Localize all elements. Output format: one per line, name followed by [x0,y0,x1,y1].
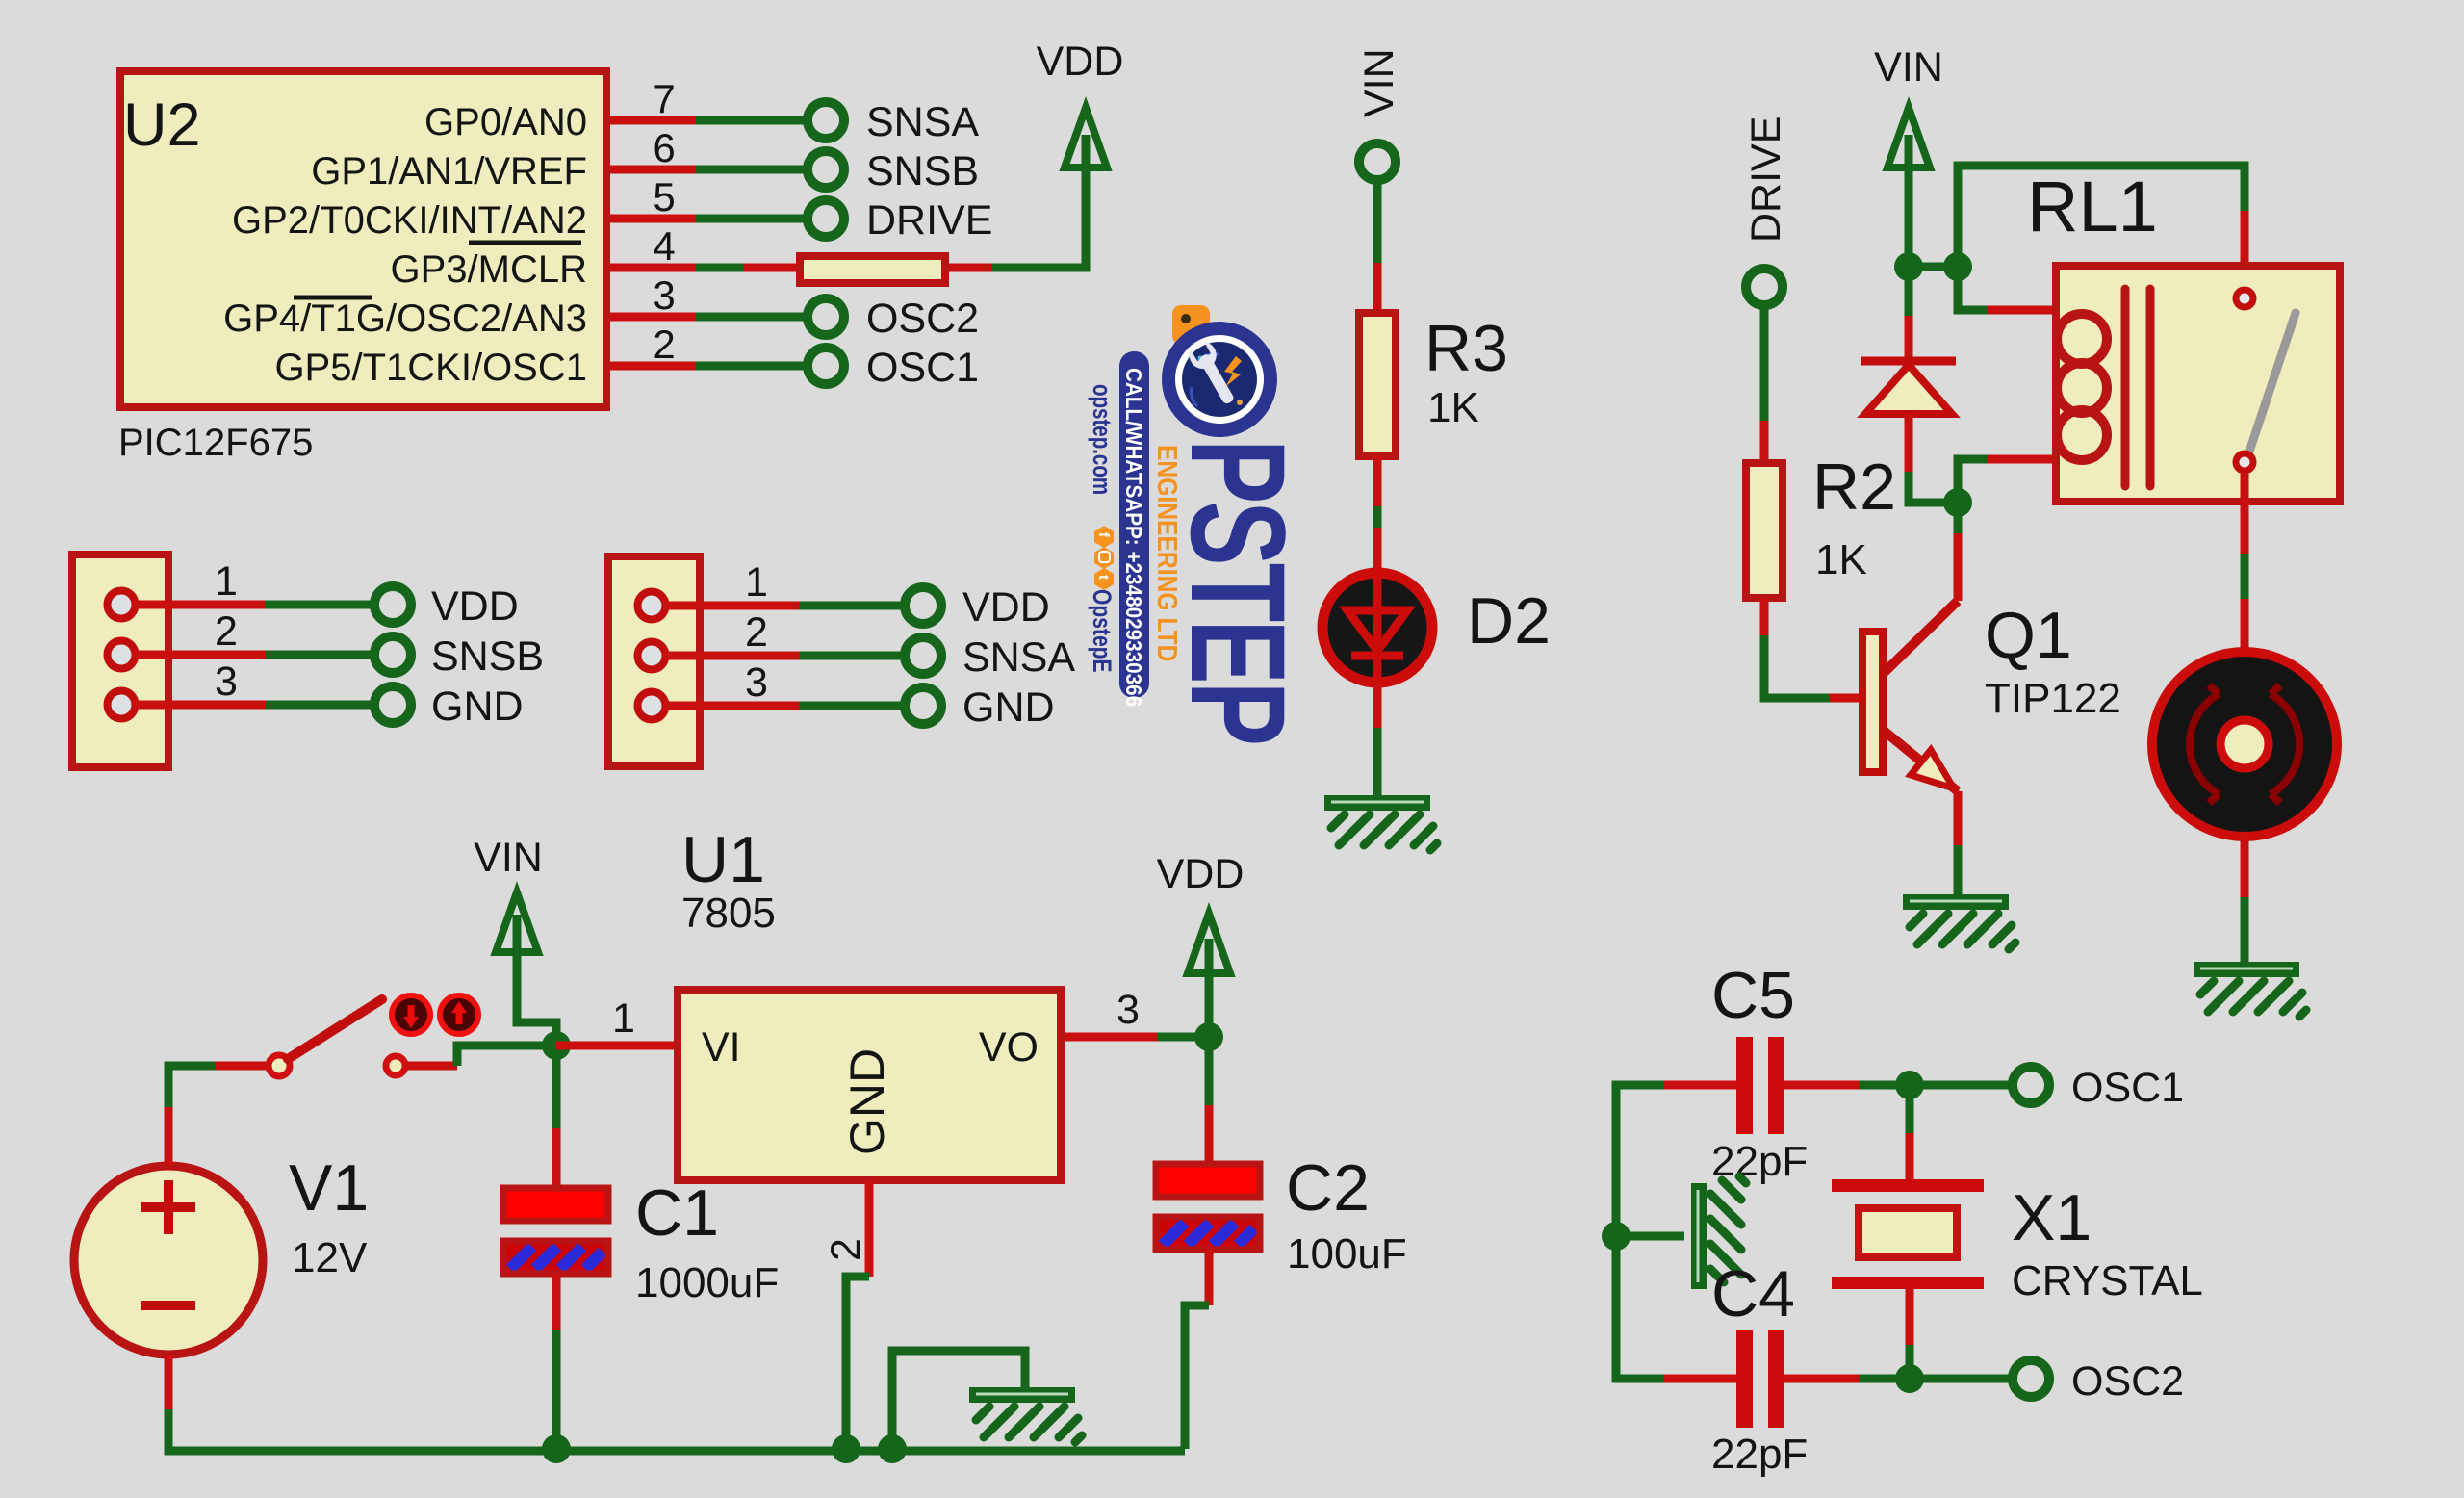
wire pin4 to R1 [744,264,796,272]
svg-text:12V: 12V [292,1234,368,1281]
wire X1 top green [1906,1098,1914,1133]
wire switch out green [457,1046,556,1066]
svg-text:2: 2 [745,609,768,656]
node OSC2 junction [1895,1364,1924,1393]
svg-text:3: 3 [653,272,675,318]
wire V1 top green [168,1066,215,1107]
wire U1 pin2 red [865,1180,874,1277]
wire pin3 to OSC2 [696,313,810,322]
terminal OSC1 [808,348,844,384]
wire relay to motor red1 [2241,474,2249,554]
relay RL1 body [2056,266,2340,502]
terminal DRIVE (right) [1746,269,1783,305]
wire X1 bottom green [1906,1345,1914,1379]
svg-text:GP5/T1CKI/OSC1: GP5/T1CKI/OSC1 [274,347,587,389]
terminal VDD (J1) [374,586,411,623]
diode D1 [1861,361,1956,414]
wire motor to gnd red [2241,837,2249,897]
terminal DRIVE [808,200,844,237]
wire C5 right red [1784,1081,1860,1090]
svg-text:22pF: 22pF [1711,1431,1808,1478]
wire U1 pin2 green jog [846,1277,869,1449]
svg-text:2: 2 [823,1238,869,1261]
wire D2 to gnd green [1373,728,1382,795]
svg-text:GP1/AN1/VREF: GP1/AN1/VREF [311,150,587,193]
svg-text:PSTEP: PSTEP [1163,439,1313,743]
relay core lines [2121,289,2130,486]
svg-text:RL1: RL1 [2027,167,2158,246]
svg-text:C5: C5 [1711,959,1795,1032]
connector J1 body [72,555,168,767]
wire J2 pin2 green [799,652,908,660]
svg-text:7805: 7805 [681,890,776,937]
resistor R3 [1359,313,1396,456]
V1 plus sign [141,1180,195,1305]
J2 pin1 circle [638,592,666,620]
svg-text:C2: C2 [1286,1151,1370,1225]
logo bolt [1224,356,1242,387]
wire VIN arrow down [1905,135,1913,267]
wire relay-motor green [2241,554,2249,599]
svg-text:3: 3 [215,659,238,705]
wire pin6 stub [610,166,696,174]
svg-text:6: 6 [653,125,675,170]
ground (D2) [1324,795,1437,850]
ground (motor) [2194,962,2306,1017]
wire pin4 stub [610,264,696,272]
terminal OSC1 (right) [2013,1067,2049,1103]
svg-text:7: 7 [653,76,675,121]
capacitor C5 [1736,1037,1784,1134]
diode D1 wire bottom green [1909,472,1958,503]
wire VIN arrow elbow [517,915,556,1046]
node VIN junction left [1894,252,1923,281]
node VO junction [1194,1022,1223,1051]
terminal SNSA [808,102,844,139]
motor body [2152,652,2337,837]
svg-text:DRIVE: DRIVE [1743,116,1789,243]
wire to switch red [215,1062,269,1071]
logo O ring [1168,328,1270,430]
svg-text:OpstepE: OpstepE [1087,589,1116,673]
wire C1 bottom green [552,1330,561,1449]
svg-text:VIN: VIN [1356,48,1402,117]
diode D1 wire top red [1905,316,1913,361]
wire X1 top red [1906,1133,1914,1182]
wire J1 pin2 red [133,651,266,659]
wire VDD arrow to junction [1205,939,1214,1037]
logo social icons [1094,526,1114,590]
svg-text:VDD: VDD [962,584,1050,631]
switch SW1 [269,999,405,1076]
svg-text:GP4/T1G/OSC2/AN3: GP4/T1G/OSC2/AN3 [223,297,587,340]
svg-text:GND: GND [431,684,524,730]
wire base red [1829,694,1859,703]
J2 pin2 circle [638,642,666,670]
svg-text:4: 4 [653,223,675,269]
wire C5 left green [1616,1085,1664,1236]
svg-text:1K: 1K [1427,384,1479,431]
svg-text:U1: U1 [681,823,765,896]
wire C5 right green [1860,1081,1910,1090]
svg-text:GND: GND [962,684,1055,731]
svg-text:U2: U2 [123,91,201,159]
svg-text:1K: 1K [1815,536,1867,583]
svg-text:PIC12F675: PIC12F675 [118,422,313,464]
wire J2 pin2 red [663,652,799,660]
wire D2 to gnd red [1373,682,1382,728]
J1 pin3 circle [108,691,136,719]
wire C2 bottom red [1205,1250,1214,1305]
resistor R2 [1746,463,1783,598]
svg-text:t: t [1095,575,1112,580]
capacitor C2 top plate [1156,1164,1260,1197]
wire coil top red [1988,306,2056,315]
wire J1 pin1 green [266,601,377,609]
wire collector green [1954,503,1963,533]
node VI junction [542,1031,571,1060]
svg-text:VDD: VDD [1157,851,1245,897]
wire emitter red [1954,791,1963,845]
svg-text:ENGINEERING LTD: ENGINEERING LTD [1152,445,1183,661]
diode D1 wire top green [1905,267,1913,316]
power arrow VDD (right) [1188,914,1230,973]
wire junction up to relay top [1958,166,2245,267]
wire J2 pin1 red [663,602,799,610]
ground (Q1) [1903,894,2015,949]
svg-text:OSC1: OSC1 [866,345,979,391]
power arrow VIN (right) [1887,108,1930,168]
wire C5 left red [1664,1081,1738,1090]
svg-text:opstep.com: opstep.com [1087,384,1116,495]
svg-text:SNSB: SNSB [431,633,544,680]
wire pin3 stub [610,313,696,322]
wire switch out red [405,1062,457,1071]
svg-text:VIN: VIN [1874,44,1943,90]
switch button up [440,995,478,1034]
svg-text:2: 2 [653,322,675,367]
terminal SNSA (J2) [905,637,941,674]
wire junction down green [552,1058,561,1128]
relay blade [2249,313,2296,452]
wire J2 pin1 green [799,602,908,610]
wire C4 left red [1664,1375,1738,1383]
svg-text:VIN: VIN [474,835,543,881]
svg-text:3: 3 [1116,987,1140,1033]
wire R2 green to base [1764,635,1829,698]
J2 pin3 circle [638,692,666,720]
wire junction down green (C2) [1205,1049,1214,1105]
wire pin5 stub [610,215,696,223]
wire R1 to corner [949,264,991,272]
svg-text:OSC2: OSC2 [2071,1358,2184,1405]
svg-text:3: 3 [745,659,768,706]
wire J2 pin3 red [663,702,799,710]
svg-text:SNSA: SNSA [866,99,979,145]
relay coil [2057,314,2107,460]
crystal X1 [1832,1179,1984,1289]
motor hub [2220,720,2269,768]
svg-text:R3: R3 [1424,312,1508,385]
terminal VIN [1359,143,1396,180]
svg-text:R2: R2 [1812,451,1896,524]
ground (crystal, rotated) [1691,1176,1746,1289]
wire J1 pin2 green [266,651,377,659]
wire V1 bottom red [165,1355,173,1409]
wire C1 bottom red [552,1274,561,1330]
wire to side ground [1616,1232,1684,1241]
wire J1 pin3 red [133,701,266,710]
wire DRIVE to R2 red [1760,421,1769,463]
node rail C1 [542,1434,571,1463]
svg-text:DRIVE: DRIVE [866,197,992,244]
logo call pill [1119,351,1149,698]
wire bottom rail [168,1409,1185,1451]
capacitor C2 bottom plate [1156,1217,1260,1250]
motor brushes [2190,685,2219,803]
svg-text:Q1: Q1 [1985,599,2072,672]
wire C4 left green [1616,1236,1664,1379]
wire U1 VO red [1065,1033,1158,1042]
wire U1 ground hook [892,1351,1025,1449]
wire U1 VO green [1158,1033,1209,1042]
diode D1 wire bottom red [1905,414,1913,472]
wire motor to gnd green [2241,897,2249,962]
wire R3-D2 green bit [1373,506,1382,528]
wire VIN to R3 red [1373,263,1382,313]
capacitor C1 bottom plate [503,1241,608,1274]
wire coil top elbow [1958,267,1988,310]
terminal VDD (J2) [905,587,941,624]
terminal SNSB [808,151,844,188]
wire DRIVE green [1760,302,1769,421]
svg-text:2: 2 [215,608,238,655]
svg-text:OSC1: OSC1 [2071,1065,2184,1111]
wire pin2 to OSC1 [696,362,810,371]
node rail U1 gnd b [878,1434,907,1463]
svg-text:1: 1 [612,995,635,1042]
svg-text:22pF: 22pF [1711,1138,1808,1185]
wire relay top pin red [2241,211,2249,289]
power arrow VIN (left) [496,892,538,952]
svg-text:TIP122: TIP122 [1985,675,2121,722]
wire to OSC2 terminal [1910,1375,2015,1383]
transistor Q1 [1862,601,1958,791]
svg-text:5: 5 [653,174,675,220]
wire J1 pin3 green [266,701,377,710]
svg-text:1: 1 [215,558,238,605]
wire pin2 stub [610,362,696,371]
svg-text:D2: D2 [1467,584,1551,658]
wire to C2 red [1205,1105,1214,1168]
wire J2 pin3 green [799,702,908,710]
node collector junction [1943,488,1972,517]
ground (U1) [969,1387,1082,1442]
capacitor C4 [1736,1330,1784,1428]
resistor R1 (MCLR pullup) [800,256,945,283]
wire to OSC1 terminal [1910,1081,2015,1090]
svg-text:GND: GND [840,1048,894,1155]
svg-text:OSC2: OSC2 [866,296,979,342]
wire C4 right green [1860,1375,1910,1383]
wire pin4 green [696,264,744,272]
wire coil bottom elbow [1958,459,1988,503]
logo wrench [1186,339,1242,409]
terminal SNSB (J1) [374,636,411,673]
wire pin7 to SNSA [696,116,810,125]
relay pin bottom [2236,453,2253,471]
svg-text:GP3/MCLR: GP3/MCLR [391,248,588,291]
svg-text:1000uF: 1000uF [635,1259,779,1306]
svg-text:100uF: 100uF [1287,1230,1407,1278]
node rail U1 gnd a [832,1434,860,1463]
svg-text:C1: C1 [635,1176,719,1250]
node OSC1 junction [1895,1071,1924,1099]
terminal OSC2 [808,298,844,335]
LED D2 body [1322,573,1432,683]
wire coil bottom red [1988,455,2056,464]
terminal OSC2 (right) [2013,1360,2049,1397]
svg-text:GP0/AN0: GP0/AN0 [424,101,587,143]
wire V1 top red [165,1107,173,1166]
LED D2 symbol [1347,574,1407,682]
terminal GND (J2) [905,687,941,724]
svg-text:VDD: VDD [431,583,519,630]
wire J1 pin1 red [133,601,266,609]
wire collector red [1954,533,1963,601]
wire C4 right red [1784,1375,1860,1383]
svg-text:C4: C4 [1711,1257,1795,1330]
wire pin7 stub [610,116,696,125]
svg-text:1: 1 [745,559,768,606]
wire emitter green [1954,845,1963,894]
power arrow VDD (top) [1065,108,1107,168]
svg-text:VO: VO [979,1024,1039,1071]
wire between junctions [1909,263,1958,271]
switch button down [392,995,430,1034]
IC U2 body [120,71,606,407]
relay pin top [2236,290,2253,307]
wire junction to U1 VI red [556,1042,674,1050]
svg-text:X1: X1 [2012,1181,2092,1254]
regulator U1 body [678,990,1061,1180]
terminal GND (J1) [374,686,411,723]
wire to LED red [1373,528,1382,574]
J1 pin2 circle [108,641,136,669]
svg-text:SNSA: SNSA [962,634,1075,681]
wire X1 bottom red [1906,1289,1914,1345]
logo plug square [1172,305,1210,345]
svg-text:V1: V1 [289,1151,369,1225]
svg-text:SNSB: SNSB [866,148,979,194]
J1 pin1 circle [108,591,136,619]
capacitor C1 top plate [503,1188,608,1221]
node C4/C5 gnd junction [1602,1222,1630,1251]
node VIN junction right [1943,252,1972,281]
svg-text:VI: VI [702,1024,741,1071]
svg-text:GP2/T0CKI/INT/AN2: GP2/T0CKI/INT/AN2 [232,199,587,242]
wire R2 red below [1760,598,1769,635]
source V1 body [74,1166,263,1355]
wire R3 to D2 red1 [1373,456,1382,506]
wire C2 bottom green jog [1185,1305,1209,1449]
wire VIN green [1373,177,1382,263]
connector J2 body [608,556,700,766]
svg-text:VDD: VDD [1037,39,1124,85]
wire pin5 to DRIVE [696,215,810,223]
wire relay-motor red2 [2241,599,2249,654]
svg-text:CALL/WHATSAPP: +2348029330366: CALL/WHATSAPP: +2348029330366 [1121,368,1146,707]
svg-text:CRYSTAL: CRYSTAL [2012,1257,2203,1304]
wire pin6 to SNSB [696,166,810,174]
wire to C1 red [552,1128,561,1192]
wire corner to VDD arrow [991,135,1086,268]
